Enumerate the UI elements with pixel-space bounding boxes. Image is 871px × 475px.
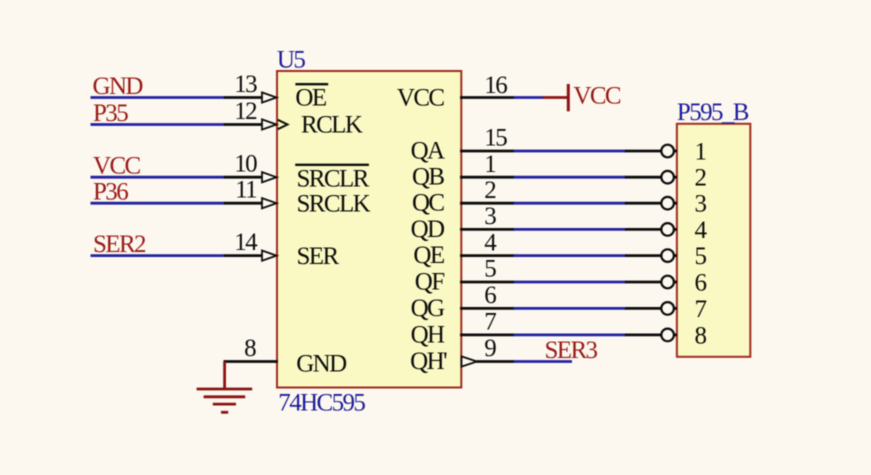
connector pin name 7 [695, 296, 707, 323]
svg-text:2: 2 [695, 165, 707, 192]
svg-text:9: 9 [484, 335, 496, 362]
connector pin 2 [625, 171, 677, 184]
svg-text:3: 3 [695, 191, 707, 218]
pin name QH [411, 321, 445, 348]
pin name QG [411, 295, 445, 322]
svg-text:16: 16 [484, 72, 507, 99]
svg-text:5: 5 [695, 243, 707, 270]
pin number 15 [484, 125, 507, 152]
pin number 13 [234, 71, 257, 98]
svg-text:SER: SER [297, 243, 340, 270]
wire QH to connector pin 8 [514, 333, 626, 336]
wire net P36 to pin 11 [91, 202, 226, 205]
pin name QF [415, 269, 444, 296]
net label SER3 [545, 337, 598, 364]
pin name SRCLK [297, 191, 371, 218]
pin number 4 [484, 229, 497, 256]
wire net P35 to pin 12 [91, 123, 226, 126]
wire net SER2 to pin 14 [91, 254, 226, 257]
svg-text:QG: QG [411, 295, 445, 322]
svg-text:U5: U5 [277, 47, 305, 74]
svg-text:RCLK: RCLK [301, 112, 363, 139]
connector pin 5 [625, 249, 677, 262]
pin 16 VCC [460, 96, 515, 99]
pin name QH' [410, 348, 447, 375]
svg-text:QD: QD [411, 216, 445, 243]
svg-text:3: 3 [484, 203, 496, 230]
pin 15 QA [460, 150, 515, 153]
net label GND [93, 73, 144, 100]
svg-text:8: 8 [695, 322, 707, 349]
pin name QD [411, 216, 445, 243]
svg-text:7: 7 [695, 296, 707, 323]
pin 3 QD [460, 228, 515, 231]
svg-text:QF: QF [415, 269, 444, 296]
pin number 3 [484, 203, 496, 230]
connector pin name 8 [695, 322, 707, 349]
pin number 9 [484, 335, 496, 362]
connector pin name 1 [695, 139, 706, 166]
pin 9 QH' [462, 356, 515, 366]
svg-text:8: 8 [244, 335, 256, 362]
pin 13 OE [224, 92, 277, 102]
wire QE to connector pin 5 [514, 254, 626, 257]
pin name QB [412, 164, 444, 191]
connector pin name 5 [695, 243, 707, 270]
pin number 5 [484, 256, 496, 283]
svg-text:OE: OE [295, 85, 326, 112]
wire net SER3 [514, 360, 572, 363]
designator U5 [277, 47, 305, 74]
svg-text:GND: GND [296, 351, 347, 378]
net label P35 [93, 100, 128, 127]
pin 4 QE [460, 254, 515, 257]
pin name QA [411, 138, 445, 165]
wire QG to connector pin 7 [514, 307, 626, 310]
net label SER2 [93, 231, 146, 258]
connector pin 3 [625, 197, 677, 210]
pin name OE with overline [295, 84, 328, 111]
power symbol VCC [543, 83, 621, 112]
svg-text:P595_B: P595_B [677, 99, 749, 126]
value label 74HC595 [278, 390, 365, 417]
svg-text:7: 7 [484, 309, 496, 336]
pin 2 QC [460, 202, 515, 205]
pin name QC [412, 190, 444, 217]
pin name QE [413, 242, 444, 269]
svg-text:QE: QE [413, 242, 444, 269]
wire QB to connector pin 2 [514, 176, 626, 179]
pin number 16 [484, 72, 507, 99]
svg-text:VCC: VCC [573, 83, 621, 110]
svg-text:13: 13 [234, 71, 257, 98]
connector pin name 4 [695, 217, 708, 244]
svg-text:6: 6 [695, 270, 707, 297]
pin 14 SER [224, 251, 277, 261]
svg-text:2: 2 [484, 177, 496, 204]
connector P595_B body [677, 124, 750, 357]
pin number 1 [484, 151, 495, 178]
pin 6 QG [460, 307, 515, 310]
svg-text:SER2: SER2 [93, 231, 146, 258]
pin name SER [297, 243, 340, 270]
pin number 14 [234, 229, 258, 256]
wire QC to connector pin 3 [514, 202, 626, 205]
connector pin name 6 [695, 270, 707, 297]
svg-text:GND: GND [93, 73, 144, 100]
pin name VCC [397, 85, 445, 112]
svg-text:15: 15 [484, 125, 507, 152]
pin number 2 [484, 177, 496, 204]
svg-text:P36: P36 [93, 179, 128, 206]
connector pin name 2 [695, 165, 707, 192]
svg-text:SER3: SER3 [545, 337, 598, 364]
pin number 7 [484, 309, 496, 336]
designator P595_B [677, 99, 749, 126]
connector pin 7 [625, 302, 677, 315]
net label P36 [93, 179, 128, 206]
svg-text:VCC: VCC [397, 85, 445, 112]
svg-text:14: 14 [234, 229, 258, 256]
pin name RCLK [301, 112, 363, 139]
svg-text:VCC: VCC [93, 152, 141, 179]
svg-text:1: 1 [484, 151, 495, 178]
wire QA to connector pin 1 [514, 150, 626, 153]
svg-text:1: 1 [695, 139, 706, 166]
pin 10 SRCLR [224, 172, 277, 182]
net label VCC (left) [93, 152, 141, 179]
pin name GND [296, 351, 347, 378]
svg-text:SRCLK: SRCLK [297, 191, 371, 218]
wire QD to connector pin 4 [514, 228, 626, 231]
pin name SRCLR with overline [295, 165, 369, 193]
wire QF to connector pin 6 [514, 281, 626, 284]
wire pin16 to VCC power [514, 96, 544, 99]
connector pin 8 [625, 329, 677, 342]
svg-text:6: 6 [484, 282, 496, 309]
connector pin 4 [625, 223, 677, 236]
connector pin 6 [625, 276, 677, 289]
pin number 12 [234, 98, 257, 125]
svg-text:12: 12 [234, 98, 257, 125]
svg-text:SRCLR: SRCLR [297, 166, 370, 193]
wire net GND to pin 13 [91, 96, 226, 99]
pin number 11 [235, 177, 256, 204]
pin 1 QB [460, 176, 515, 179]
svg-text:11: 11 [235, 177, 256, 204]
pin 12 RCLK [224, 119, 288, 129]
svg-text:10: 10 [234, 151, 257, 178]
svg-text:QA: QA [411, 138, 445, 165]
pin number 10 [234, 151, 257, 178]
svg-text:QH': QH' [410, 348, 447, 375]
ground symbol [197, 362, 253, 413]
svg-text:QB: QB [412, 164, 444, 191]
svg-text:5: 5 [484, 256, 496, 283]
wire net VCC to pin 10 [91, 176, 226, 179]
pin 11 SRCLK [224, 198, 277, 208]
IC U5 body (74HC595) [277, 71, 461, 388]
pin 5 QF [460, 281, 515, 284]
pin number 8 [244, 335, 256, 362]
svg-text:QH: QH [411, 321, 445, 348]
pin number 6 [484, 282, 496, 309]
svg-text:QC: QC [412, 190, 444, 217]
pin 8 GND [224, 360, 279, 363]
connector pin name 3 [695, 191, 707, 218]
connector pin 1 [625, 145, 677, 158]
pin 7 QH [460, 333, 515, 336]
svg-text:74HC595: 74HC595 [278, 390, 365, 417]
